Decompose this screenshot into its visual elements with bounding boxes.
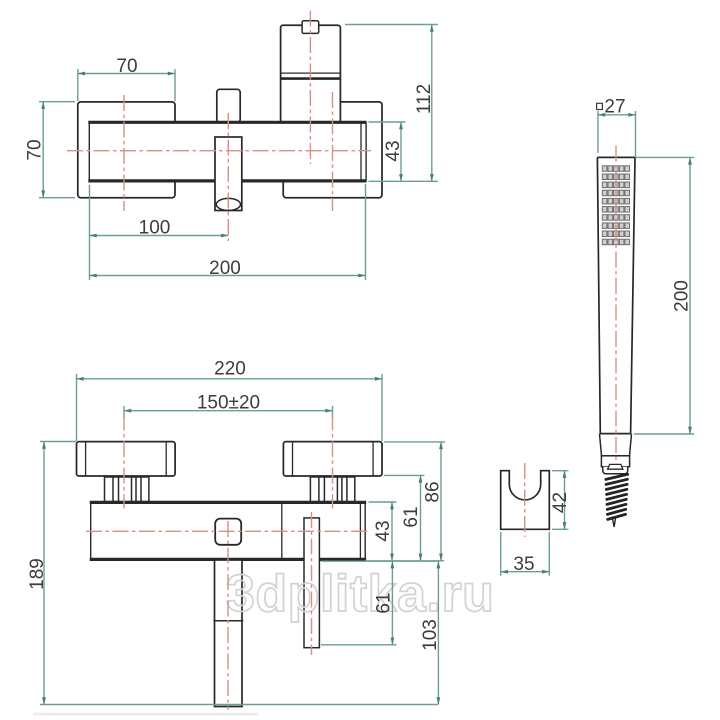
svg-text:35: 35 bbox=[513, 554, 534, 575]
svg-text:43: 43 bbox=[383, 140, 404, 161]
svg-text:27: 27 bbox=[604, 97, 625, 118]
svg-text:43: 43 bbox=[373, 520, 394, 541]
svg-text:86: 86 bbox=[423, 481, 444, 502]
dim 200 (hand shower) bbox=[636, 156, 695, 158]
centerline right handle (top view) bbox=[332, 92, 334, 211]
svg-text:150±20: 150±20 bbox=[197, 393, 260, 414]
centerline horizontal (front view) bbox=[86, 530, 369, 532]
arrows dim 61 lower bbox=[391, 561, 395, 568]
spout tube (front view) bbox=[214, 560, 244, 707]
dim 189 (front view) bbox=[40, 441, 76, 443]
arrows dim 100 bbox=[90, 234, 97, 238]
label square27 bbox=[597, 103, 603, 109]
svg-text:3dplitka.ru: 3dplitka.ru bbox=[226, 565, 494, 623]
dim 220 (front view) bbox=[76, 374, 78, 441]
dim 43 (top view) bbox=[369, 121, 406, 123]
spray face grid of hand shower bbox=[602, 166, 629, 245]
arrows dim 70 vertical bbox=[41, 102, 45, 109]
dim 27 (hand shower) bbox=[597, 111, 599, 153]
dim 61 upper (front view) bbox=[384, 474, 425, 476]
svg-text:70: 70 bbox=[116, 56, 137, 77]
svg-text:61: 61 bbox=[401, 506, 422, 527]
faint ghost line bottom bbox=[33, 713, 258, 716]
aerator knob (top middle) bbox=[217, 89, 240, 122]
diverter knob on tower top bbox=[302, 21, 319, 34]
wall bracket bbox=[501, 471, 550, 530]
dim 200 (top view) bbox=[365, 184, 367, 280]
shower hose nut bbox=[601, 456, 629, 474]
svg-text:100: 100 bbox=[139, 218, 171, 239]
shower neck bbox=[600, 434, 632, 456]
arrows dim 35 bbox=[501, 570, 508, 574]
diverter tower (top view) bbox=[281, 25, 341, 123]
arrows dim 86 bbox=[439, 442, 443, 449]
faucet body (front view) bbox=[90, 502, 367, 559]
escutcheon left (front view) bbox=[77, 442, 176, 476]
spout (top view) bbox=[215, 137, 242, 211]
handle right (top view) bbox=[283, 102, 382, 198]
dim 35 (bracket) bbox=[500, 532, 502, 576]
threaded connector right bbox=[310, 477, 354, 502]
svg-text:220: 220 bbox=[214, 359, 246, 380]
centerline right handle (front view) bbox=[332, 415, 334, 509]
centerline bracket bbox=[524, 463, 526, 537]
dim 103 (front view) bbox=[437, 561, 439, 704]
arrows dim 150±20 bbox=[124, 409, 131, 413]
centerline tower (top view) bbox=[309, 11, 311, 165]
arrows dim 27 bbox=[598, 113, 605, 117]
arrows dim 43 top view bbox=[399, 122, 403, 129]
arrows dim 43 front bbox=[390, 502, 394, 509]
dim 70 vertical (top view) bbox=[39, 101, 75, 103]
dim 86 (front view) bbox=[384, 441, 445, 443]
svg-text:70: 70 bbox=[25, 139, 46, 160]
dim 61 lower (front view) bbox=[321, 560, 438, 562]
dim 150±20 (front view) bbox=[123, 406, 125, 418]
arrows dim 42 bbox=[563, 471, 567, 478]
svg-text:103: 103 bbox=[420, 619, 441, 651]
hose spring coil bbox=[606, 474, 628, 519]
dim 100 (top view) bbox=[89, 185, 91, 280]
arrows dim 112 bbox=[430, 25, 434, 32]
svg-text:61: 61 bbox=[373, 592, 394, 613]
centerline hand shower bbox=[615, 146, 617, 463]
dim 112 (top view) bbox=[345, 24, 438, 26]
arrows dim 200 top view bbox=[90, 274, 97, 278]
centerline rod (front view) bbox=[311, 512, 313, 655]
arrows dim 70 horizontal bbox=[78, 72, 85, 76]
centre square logo plate bbox=[215, 519, 241, 545]
centerline left handle (top view) bbox=[123, 95, 125, 211]
dim 43 (front view) bbox=[369, 501, 397, 503]
escutcheon right (front view) bbox=[283, 442, 382, 476]
svg-text:189: 189 bbox=[27, 558, 48, 590]
arrows dim 220 bbox=[77, 377, 84, 381]
svg-text:200: 200 bbox=[209, 258, 241, 279]
handle left (top view) bbox=[78, 102, 175, 198]
shower wand outline bbox=[597, 157, 635, 433]
centerline spout (top view) bbox=[227, 113, 229, 241]
dim 70 horizontal (top view) extension+line bbox=[77, 69, 79, 101]
svg-text:200: 200 bbox=[672, 280, 693, 312]
faucet body (top view) bbox=[88, 122, 366, 181]
arrows dim 189 bbox=[42, 442, 46, 449]
dim 42 (bracket) bbox=[552, 470, 569, 472]
centerline spout (front view) bbox=[227, 521, 229, 710]
svg-text:42: 42 bbox=[550, 492, 571, 513]
arrows dim 200 shower bbox=[688, 157, 692, 164]
threaded connector left bbox=[105, 477, 149, 502]
centerline left handle (front view) bbox=[123, 415, 125, 509]
svg-text:112: 112 bbox=[414, 84, 435, 114]
hose tip bbox=[612, 517, 616, 528]
centerline horizontal (top view) bbox=[67, 150, 371, 152]
arrows dim 61 upper bbox=[419, 475, 423, 482]
arrows dim 103 bbox=[437, 561, 441, 568]
diverter pull rod (front view) bbox=[304, 518, 319, 648]
